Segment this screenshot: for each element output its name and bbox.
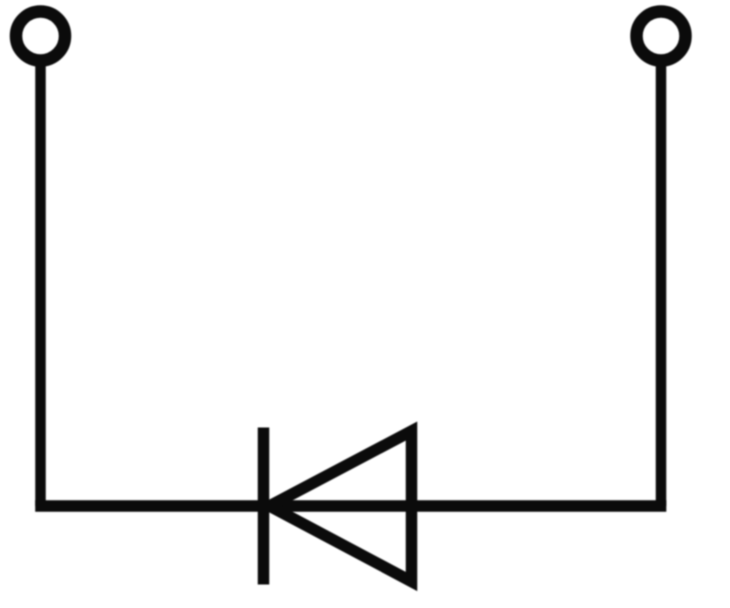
wire (bottom horizontal rail) [35,500,666,512]
diode D1 cathode bar [258,428,270,585]
wire (right vertical from T2 to bottom rail) [656,58,667,506]
wire (left vertical from T1 to bottom rail) [35,58,46,506]
diode D1 anode triangle (points left) [270,431,412,582]
terminal T1 (top-left circle) [16,12,65,61]
terminal T2 (top-right circle) [637,12,686,61]
